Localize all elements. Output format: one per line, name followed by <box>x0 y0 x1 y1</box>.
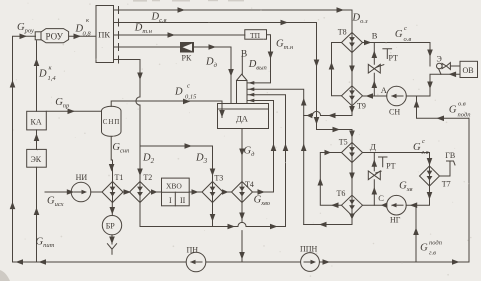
arrow line2 down a <box>314 60 320 68</box>
arrow G_ov down <box>427 50 433 58</box>
arrow G_hvo left into DA <box>248 99 254 103</box>
arrow D2 down <box>137 169 143 177</box>
arrow BR drain down <box>109 237 115 245</box>
arrow OV makeup left <box>437 116 445 122</box>
arrow riser274 up <box>271 144 277 152</box>
svg-text:с: с <box>404 25 407 32</box>
vessel SNP <box>102 106 122 136</box>
T3 internal line <box>212 182 214 203</box>
svg-text:I: I <box>169 196 172 205</box>
svg-text:G: G <box>449 105 457 116</box>
T1 internal line <box>112 182 114 203</box>
svg-text:Т5: Т5 <box>339 137 348 146</box>
arrow T6 bottom down <box>349 214 355 220</box>
wire T1 drain to BR <box>111 203 113 216</box>
wire T8T9 drain hop over line2 <box>312 111 320 115</box>
wire T2 to HVO <box>151 191 162 193</box>
svg-text:РОУ: РОУ <box>46 32 64 42</box>
wire PK line4 to RK <box>114 46 181 48</box>
svg-text:0,8: 0,8 <box>83 30 92 37</box>
arrow T9-T8 bypass up <box>329 62 335 70</box>
wire bottom line to EK <box>36 167 38 262</box>
T6 internal line <box>351 195 353 216</box>
pump PN circle <box>186 252 206 272</box>
wire T7 right to GV tap <box>440 161 451 176</box>
arrow T5-T6 steam down <box>349 173 355 181</box>
wire drains hop over T4 drop <box>238 222 246 226</box>
arrow bottom line left b <box>39 259 47 265</box>
wire KA steam to ROU <box>36 41 38 112</box>
tick PK outlet 1 <box>118 7 120 14</box>
svg-text:Д: Д <box>370 142 376 152</box>
arrow NG to T6 left <box>381 202 388 208</box>
svg-text:Т6: Т6 <box>337 189 346 198</box>
arrow T7 to NG left <box>410 202 418 208</box>
tap GV symbol <box>447 161 456 165</box>
wire D2 drop to T2 <box>139 146 141 182</box>
arrow T8 out right <box>364 40 372 46</box>
heat-exchanger T5 diamond <box>342 143 363 163</box>
svg-text:подп: подп <box>458 112 471 119</box>
valve RK triangle <box>183 44 193 52</box>
arrow left riser up1 <box>10 80 16 88</box>
arrow into T5 right <box>325 150 332 156</box>
arrow T6-T5 bypass up <box>318 178 324 186</box>
heat-exchanger T3 diamond <box>202 182 223 203</box>
elevator E circle <box>437 63 443 69</box>
tank BR circle <box>102 216 121 235</box>
arrow line2 right c <box>333 127 341 133</box>
svg-text:ППН: ППН <box>300 245 318 254</box>
arrow HVO-T3 right <box>192 189 199 195</box>
arrow drains right b <box>270 224 278 230</box>
T4 internal line <box>241 182 243 203</box>
arrow G_tn left into DA <box>248 81 254 85</box>
arrow T8T9 drain left a <box>328 113 336 119</box>
arrow pump NI head <box>82 190 88 194</box>
tick PK outlet 4 <box>118 44 120 51</box>
svg-text:подп: подп <box>429 240 442 247</box>
wire T4 down to bottom line <box>241 203 243 223</box>
wire KA blowdown G_pr to SNP <box>46 110 101 112</box>
svg-text:D: D <box>174 87 183 98</box>
arrow T9 drain down <box>349 106 355 114</box>
pump NG circle <box>387 195 407 215</box>
arrow D_d down <box>228 69 234 77</box>
svg-text:II: II <box>180 196 186 205</box>
tick PK outlet 5 <box>118 56 120 63</box>
scan smudge bottom-left <box>0 270 10 281</box>
arrow bottom to EK up <box>34 208 40 216</box>
wire SN to T9 <box>363 95 387 97</box>
svg-text:о.в: о.в <box>458 101 466 108</box>
wire T7 down to NG <box>406 186 429 205</box>
T8 internal triangles <box>349 37 355 42</box>
T9 internal line <box>351 86 353 106</box>
svg-text:ХВО: ХВО <box>166 182 182 191</box>
arrow D3 down <box>210 169 216 177</box>
scan artifact top edge <box>133 0 244 2</box>
wire line5 lower to header <box>139 105 141 146</box>
valve RT2 actuator <box>376 157 387 173</box>
svg-text:G: G <box>413 142 421 153</box>
pump PPN circle <box>301 253 320 272</box>
arrow SN to T9 left <box>366 93 374 99</box>
T2 internal triangles <box>137 187 143 192</box>
svg-text:БР: БР <box>106 222 116 231</box>
arrow line2 down b <box>314 117 320 125</box>
arrow RT1 up b <box>372 81 378 89</box>
tick PK outlet 2 <box>118 19 120 26</box>
arrow T6 drain left <box>319 222 327 228</box>
valve RK body <box>181 43 194 53</box>
arrow riser304 up b <box>301 144 307 152</box>
wire drains line riser to deaerator <box>246 95 285 227</box>
svg-text:ТП: ТП <box>250 31 261 40</box>
valve RT2 branch D to C <box>373 153 375 206</box>
arrow RT1 up a <box>372 51 378 59</box>
arrow bottom right b <box>452 259 460 265</box>
boiler KA <box>27 111 47 130</box>
svg-text:с: с <box>422 138 425 145</box>
arrow T8 steam down <box>349 66 355 74</box>
wire G_iskh stub <box>45 191 71 193</box>
T5 internal triangles <box>349 147 355 152</box>
wire DA outlet G_d through T4 upper <box>241 129 243 182</box>
svg-text:ПН: ПН <box>187 246 199 255</box>
pump SN internal arrow <box>392 95 403 97</box>
svg-text:С: С <box>378 193 384 203</box>
wire PK line5 upper <box>114 60 141 97</box>
wire T9 to T8 water bypass <box>332 43 342 96</box>
wire NG to T6 <box>363 204 387 206</box>
wire EK to KA <box>36 130 38 150</box>
wire T5 to T6 steam <box>351 163 353 196</box>
pump PPN internal arrow <box>304 261 314 263</box>
svg-text:D: D <box>38 69 47 80</box>
pump NI internal arrow <box>74 191 84 193</box>
wire T8T9 drain to riser <box>304 115 313 117</box>
arrow G_iskh right <box>67 189 75 195</box>
deaerator column <box>237 81 248 104</box>
arrow pump PN head <box>190 260 196 264</box>
arrow header right <box>185 143 193 149</box>
wire PK line2 D_tn <box>114 23 353 143</box>
arrow line3 right <box>168 32 176 38</box>
svg-text:Т4: Т4 <box>245 180 254 189</box>
svg-text:ПК: ПК <box>98 30 110 40</box>
arrow G_pr right <box>68 109 76 115</box>
heat-exchanger T2 diamond <box>130 182 151 203</box>
T6 internal triangles <box>349 200 355 205</box>
arrow T4 drop down b <box>239 252 245 260</box>
valve RT1 bowtie <box>368 64 380 73</box>
arrow pump PPN head <box>311 260 317 264</box>
svg-text:с: с <box>187 83 190 90</box>
arrow T8T9 drain left b <box>306 113 312 119</box>
heat-exchanger T6 diamond <box>342 195 363 216</box>
svg-text:ЭК: ЭК <box>31 155 42 164</box>
wire D2 D3 header <box>140 145 213 147</box>
heat-exchanger T9 diamond <box>342 86 363 106</box>
T9 internal triangles <box>349 90 355 95</box>
wire SNP drain G_snp to T1 <box>111 137 112 182</box>
arrow T6 water left <box>331 202 339 208</box>
svg-text:ГВ: ГВ <box>445 151 455 160</box>
wire T5 out to D junction G_gv <box>363 153 430 167</box>
boiler PK <box>96 6 114 63</box>
T4 internal triangles <box>239 187 245 192</box>
wire OV makeup riser <box>468 118 470 262</box>
arrow OV makeup up <box>414 100 420 108</box>
wire T6 drain to riser <box>304 216 352 225</box>
wire T8 out to B junction G_ov <box>363 43 431 67</box>
heat-exchanger T7 diamond <box>420 166 440 186</box>
arrow OV return down <box>427 82 433 90</box>
arrow T1-T2 right <box>124 189 132 195</box>
wire HVO to T3 <box>189 191 202 193</box>
arrow T4 drop down a <box>239 213 245 221</box>
heater TP box <box>245 30 267 40</box>
deaerator dome <box>237 74 248 80</box>
wire T8 T9 drain to hop <box>321 106 352 116</box>
arrow riser304 up a <box>301 98 307 106</box>
arrow D015 right <box>183 99 191 105</box>
wire line5 hop over D015 <box>136 97 140 105</box>
deaerator tank inner line <box>218 108 269 110</box>
svg-text:г.в: г.в <box>429 250 436 257</box>
wire T3 drain join <box>212 203 214 227</box>
svg-text:G: G <box>420 243 428 254</box>
svg-text:КА: КА <box>31 118 42 127</box>
svg-text:В: В <box>372 31 378 41</box>
arrow T4 out right <box>258 189 266 195</box>
arrow drains right a <box>228 224 236 230</box>
arrow line4 right <box>209 44 217 50</box>
arrow G_snp down <box>109 164 115 172</box>
svg-text:НИ: НИ <box>76 173 88 182</box>
pump NI circle <box>71 182 91 202</box>
svg-text:Т1: Т1 <box>115 173 124 182</box>
heat-exchanger T8 diamond <box>342 33 363 53</box>
arrow T3 drain down <box>210 214 216 222</box>
arrow RT2 up b <box>372 187 378 195</box>
svg-text:РТ: РТ <box>386 162 396 171</box>
heat-exchanger T1 diamond <box>102 182 123 203</box>
arrow line1 right a <box>178 7 186 13</box>
wire T5 T6 drains riser <box>247 89 304 224</box>
wire T3 to T4 <box>223 191 232 193</box>
arrow KA to ROU up <box>34 59 40 67</box>
svg-text:НГ: НГ <box>390 216 401 225</box>
svg-text:ДА: ДА <box>236 114 249 124</box>
arrow T5 feed down <box>349 131 355 139</box>
wire D3 drop to T3 <box>212 146 214 182</box>
arrow D015 down into tank <box>219 110 225 118</box>
arrow T7 out down <box>427 192 433 200</box>
arrow T2-HVO right <box>151 189 158 195</box>
T7 internal line <box>429 166 431 186</box>
arrow bottom right a <box>323 259 331 265</box>
wire BR drain down <box>111 235 113 244</box>
HVO through line <box>162 191 190 193</box>
wire SNP steam D015 to deaerator <box>111 101 222 118</box>
pump SN circle <box>387 86 407 106</box>
arrow pump NG head <box>391 203 397 207</box>
svg-text:А: А <box>381 85 388 95</box>
wire T4 drop lower <box>241 231 243 262</box>
T2 internal line <box>139 182 141 203</box>
arrow T1 to BR down <box>110 207 116 215</box>
consumer OV box <box>460 61 478 77</box>
svg-text:Т3: Т3 <box>214 174 223 183</box>
arrow OV return left <box>449 72 457 78</box>
T8 internal line <box>351 33 353 53</box>
arrow GVS makeup up <box>413 228 419 236</box>
wire T1 to T2 <box>123 191 130 193</box>
svg-text:РТ: РТ <box>389 54 399 63</box>
wire PK line3 to TP <box>114 34 245 36</box>
HVO divider <box>174 192 176 206</box>
wire OV makeup line <box>417 96 470 118</box>
wire T8 to T9 steam <box>351 53 353 86</box>
svg-text:0,15: 0,15 <box>185 94 197 101</box>
T1 internal triangles <box>110 187 116 192</box>
arrow ROU to PK right <box>74 34 82 40</box>
svg-text:Т2: Т2 <box>143 173 152 182</box>
svg-text:Т8: Т8 <box>338 28 347 37</box>
elevator suction link <box>439 69 442 75</box>
arrow riser304 left into DA <box>248 87 254 91</box>
arrow line1 right b <box>337 7 345 13</box>
arrow G_d down <box>239 149 245 157</box>
wire NI to T1 <box>91 191 102 193</box>
wire feedwater to ROU riser left <box>13 36 36 262</box>
svg-text:Т7: Т7 <box>442 180 451 189</box>
arrow G_rou right <box>20 34 28 40</box>
svg-text:РК: РК <box>182 54 192 63</box>
arrow riser286 up <box>283 144 289 152</box>
wire T4 out G_hvo riser to deaerator <box>247 101 274 193</box>
heat-exchanger T4 diamond <box>232 182 253 203</box>
arrow line5 down <box>137 73 143 81</box>
svg-text:СНП: СНП <box>103 118 120 126</box>
pump NG internal arrow <box>392 204 403 206</box>
arrow drains left into DA <box>248 93 254 97</box>
economizer EK <box>27 149 47 167</box>
valve ROU inlet square <box>35 32 41 40</box>
svg-text:о.в: о.в <box>404 36 412 43</box>
drain funnel Y <box>107 244 116 255</box>
svg-text:Т9: Т9 <box>357 102 366 111</box>
wire OV return to SN <box>406 74 460 96</box>
arrow EK to KA up <box>34 134 40 142</box>
svg-text:ОВ: ОВ <box>463 66 474 75</box>
wire drains line to hop <box>213 226 238 228</box>
wire GVS makeup riser <box>415 205 417 262</box>
deaerator tank DA <box>218 104 269 129</box>
wire ROU to PK <box>69 35 96 37</box>
wire B down to RT1 and A <box>373 43 375 97</box>
arrow pump SN head <box>391 94 397 98</box>
pump PN internal arrow <box>191 261 202 263</box>
T7 internal triangles <box>427 171 433 176</box>
T3 internal triangles <box>210 187 216 192</box>
wire T2 drain <box>140 203 213 227</box>
water-treatment HVO box <box>162 178 190 206</box>
tick PK outlet 3 <box>118 32 120 39</box>
wire E to OV box <box>450 65 460 67</box>
svg-text:г.в: г.в <box>422 149 429 156</box>
svg-text:СН: СН <box>389 108 400 117</box>
arrow bottom line left a <box>16 259 24 265</box>
arrow line2 right <box>281 20 289 26</box>
valve RT1 actuator <box>376 49 391 68</box>
arrow RT2 up a <box>372 159 378 167</box>
wire bottom main line <box>13 261 470 263</box>
valve RT2 bowtie <box>368 171 380 180</box>
svg-text:Э: Э <box>437 55 442 64</box>
wire RK to deaerator D_d <box>194 47 232 104</box>
vent stem <box>241 56 243 74</box>
wire PK line1 D_sv <box>114 10 353 33</box>
arrow G_tn down <box>268 52 274 60</box>
wire TP to deaerator G_tn <box>247 35 271 83</box>
elevator E cone <box>442 63 450 70</box>
T5 internal line <box>351 143 353 163</box>
svg-text:В: В <box>241 50 247 60</box>
svg-text:1,4: 1,4 <box>48 75 57 82</box>
arrow T3-T4 right <box>222 189 229 195</box>
arrow left riser up2 <box>10 202 16 210</box>
arrow T7 feed down <box>427 158 433 166</box>
valve ROU body <box>41 29 69 43</box>
wire T6 to T5 water bypass <box>320 153 341 206</box>
svg-text:G: G <box>395 29 403 40</box>
